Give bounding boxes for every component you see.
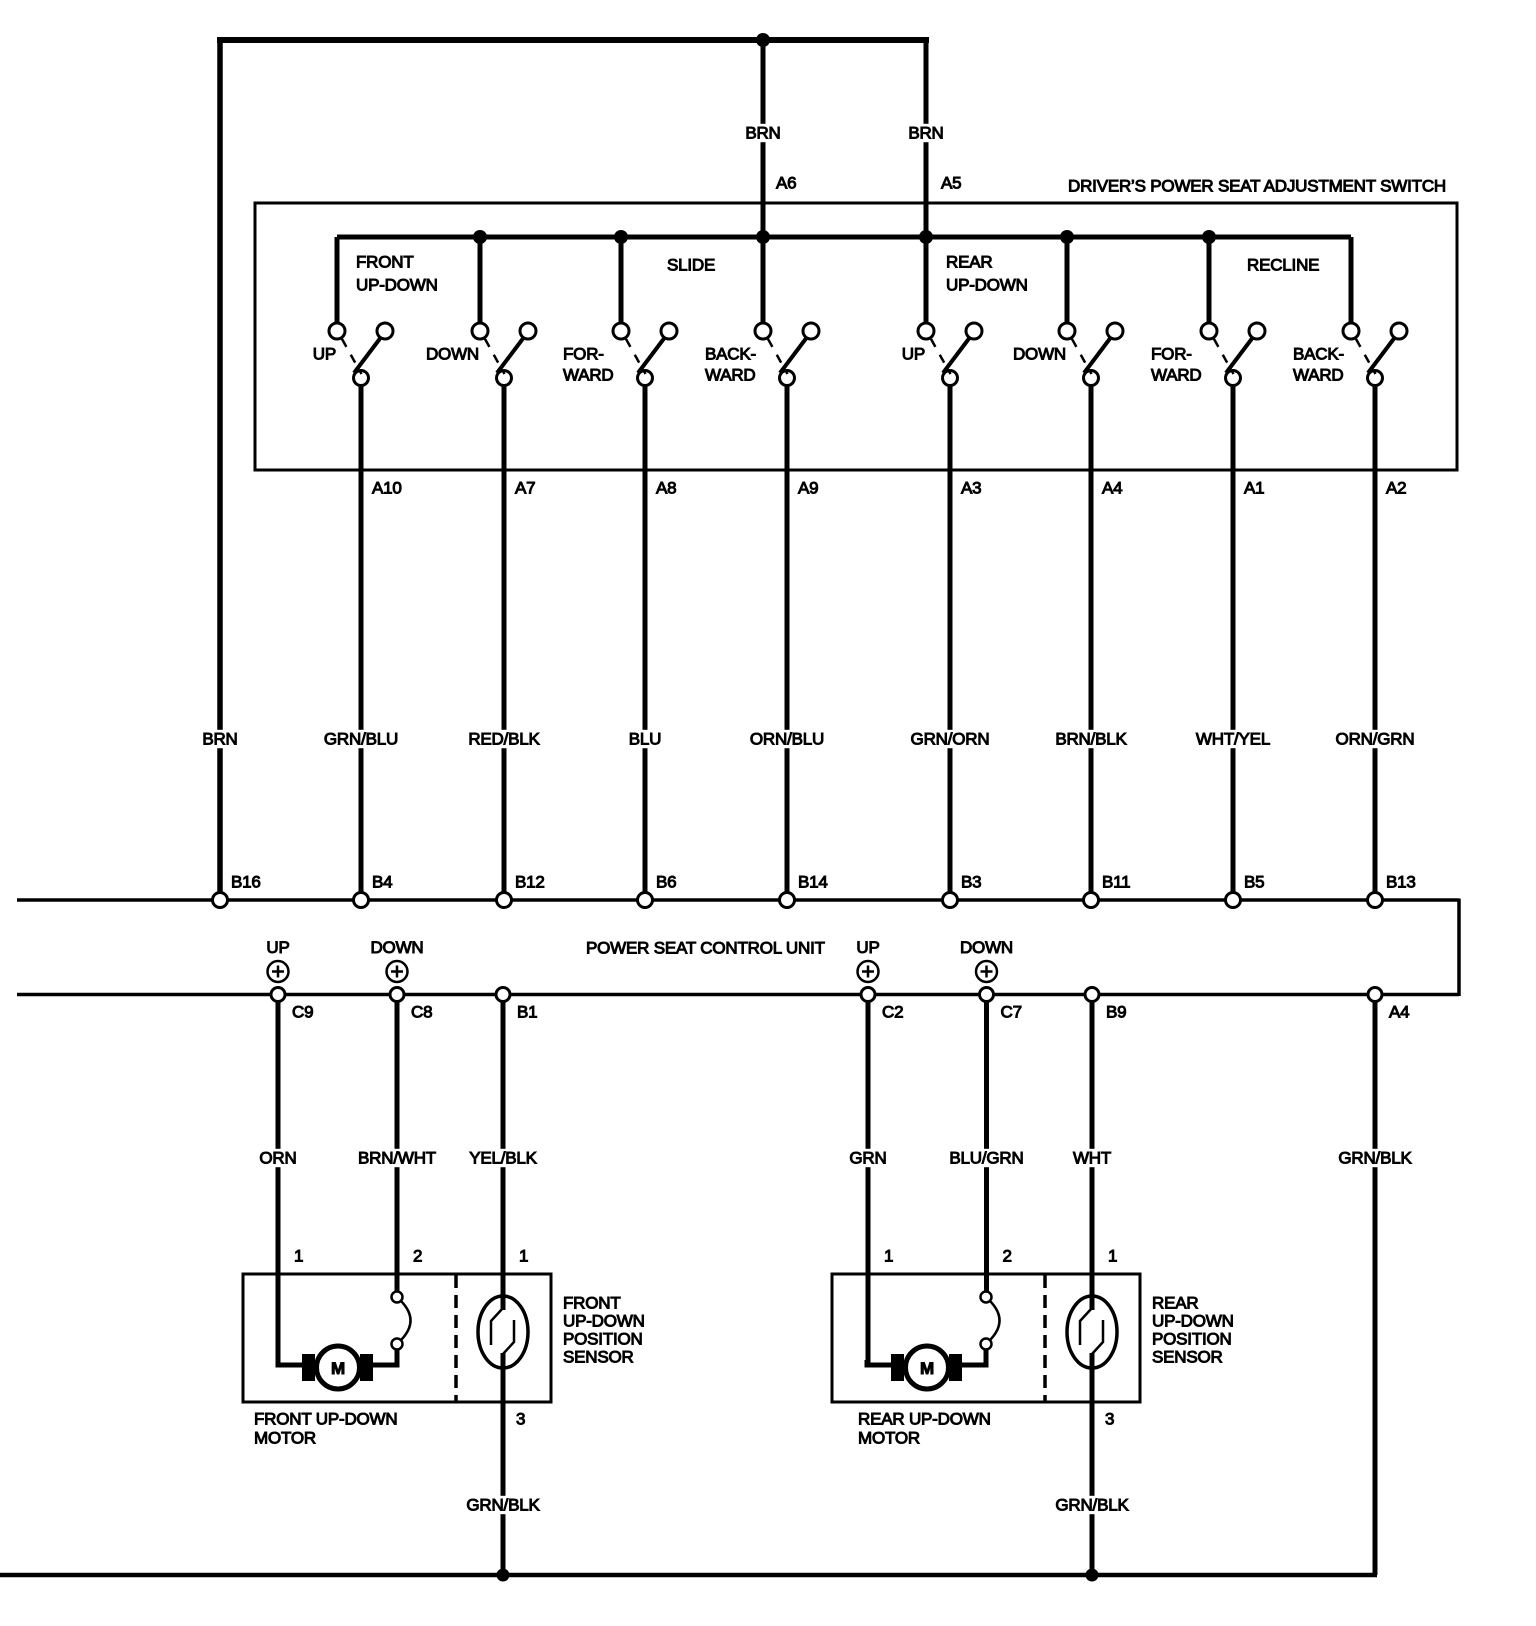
svg-text:A5: A5: [941, 174, 961, 193]
label: FRONT UP-DOWN POSITION SENSOR: [563, 1294, 645, 1367]
svg-text:DRIVER’S POWER SEAT ADJUSTMENT: DRIVER’S POWER SEAT ADJUSTMENT SWITCH: [1068, 177, 1446, 196]
label: switch position DOWN: [426, 345, 479, 364]
svg-text:B3: B3: [961, 873, 981, 892]
label: wire colour BRN (left): [200, 730, 241, 749]
svg-text:UP-DOWN: UP-DOWN: [356, 276, 438, 295]
junction: rear sensor to ground rail: [1086, 1569, 1099, 1582]
svg-text:BRN: BRN: [908, 124, 943, 143]
label: wire colour BLU/GRN: [947, 1149, 1026, 1168]
svg-text:M: M: [331, 1359, 345, 1378]
svg-text:C7: C7: [1001, 1003, 1022, 1022]
svg-text:RED/BLK: RED/BLK: [468, 730, 540, 749]
svg-text:B12: B12: [515, 873, 545, 892]
motor brush left (REAR): [891, 1354, 904, 1381]
component: POWER SEAT CONTROL UNIT outline (bottom edge): [17, 993, 1459, 997]
svg-text:M: M: [920, 1359, 934, 1378]
wire: BRN branch to pin A6: [761, 40, 766, 237]
terminal B11: [1084, 893, 1099, 908]
switch S1 FRONT UP: [329, 237, 393, 386]
wire: BRN branch to pin A5: [924, 37, 929, 237]
wire: BRN down left side to B16: [217, 37, 223, 893]
label: switch position FOR-/WARD: [563, 345, 614, 385]
terminal C2: [861, 988, 875, 1002]
svg-text:WARD: WARD: [1293, 366, 1344, 385]
label: REAR UP-DOWN POSITION SENSOR: [1152, 1294, 1234, 1367]
pin B5: [1244, 873, 1264, 892]
svg-text:REAR UP-DOWN: REAR UP-DOWN: [858, 1410, 991, 1429]
svg-text:ORN: ORN: [259, 1149, 296, 1168]
svg-text:WHT/YEL: WHT/YEL: [1196, 730, 1270, 749]
junction: bus at x=480: [473, 230, 487, 244]
svg-text:GRN/ORN: GRN/ORN: [911, 730, 990, 749]
svg-text:C8: C8: [411, 1003, 432, 1022]
svg-text:BRN/BLK: BRN/BLK: [1055, 730, 1127, 749]
pin B16: [231, 873, 261, 892]
terminal B16: [213, 893, 228, 908]
label: switch position BACK-/WARD: [1293, 345, 1344, 385]
svg-text:BACK-: BACK-: [705, 345, 756, 364]
label: wire colour ORN/BLU: [747, 730, 826, 749]
svg-text:SENSOR: SENSOR: [563, 1348, 634, 1367]
pin B3: [961, 873, 981, 892]
svg-text:2: 2: [413, 1247, 422, 1266]
wire: sensor wiper through box (FRONT): [501, 1353, 506, 1575]
svg-text:UP-DOWN: UP-DOWN: [1152, 1312, 1234, 1331]
wire: BLU from switch S3 pin A8 to B6: [643, 385, 648, 893]
pin B12: [515, 873, 545, 892]
label: section REAR UP-DOWN: [946, 253, 1028, 295]
label: switch position FOR-/WARD: [1151, 345, 1202, 385]
svg-text:GRN/BLK: GRN/BLK: [1055, 1496, 1129, 1515]
switch S7 RECLINE FORWARD: [1201, 237, 1265, 386]
junction: bus at x=1209: [1202, 230, 1216, 244]
pin A10: [372, 479, 402, 498]
svg-text:A4: A4: [1389, 1003, 1409, 1022]
wire: GRN/BLK from pin A4 to ground rail: [1373, 1001, 1378, 1575]
svg-text:DOWN: DOWN: [960, 938, 1013, 957]
svg-text:WARD: WARD: [1151, 366, 1202, 385]
svg-text:YEL/BLK: YEL/BLK: [469, 1149, 537, 1168]
junction: front sensor to ground rail: [497, 1569, 510, 1582]
svg-text:ORN/BLU: ORN/BLU: [750, 730, 824, 749]
svg-text:DOWN: DOWN: [1013, 345, 1066, 364]
pin B9: [1106, 1003, 1126, 1022]
svg-text:B4: B4: [372, 873, 392, 892]
label: wire colour ORN/GRN: [1333, 730, 1417, 749]
label: REAR UP-DOWN MOTOR: [858, 1410, 991, 1448]
svg-text:2: 2: [1003, 1247, 1012, 1266]
wire: GRN/BLU from switch S1 pin A10 to B4: [359, 385, 364, 893]
svg-text:B11: B11: [1102, 873, 1130, 892]
label: wire colour BRN (A6 feed): [743, 124, 784, 143]
label: wire colour BLU: [626, 730, 664, 749]
pin B14: [798, 873, 828, 892]
pin C8: [411, 1003, 432, 1022]
junction: bus at x=1067: [1060, 230, 1074, 244]
component: REAR MOTOR box: [832, 1274, 1140, 1402]
motor brush right (REAR): [949, 1354, 962, 1381]
wire: BLU/GRN from control unit down: [984, 1001, 989, 1291]
switch S4 SLIDE BACKWARD: [755, 237, 819, 386]
svg-text:WARD: WARD: [563, 366, 614, 385]
pin 3 (sensor output REAR): [1105, 1410, 1114, 1429]
contact: internal connector lower (FRONT): [392, 1339, 403, 1350]
svg-text:UP: UP: [266, 938, 289, 957]
svg-text:BRN: BRN: [202, 730, 237, 749]
terminal B14: [780, 893, 795, 908]
label: wire colour BRN/WHT: [355, 1149, 438, 1168]
pin 3 (sensor output FRONT): [516, 1410, 525, 1429]
svg-text:FRONT: FRONT: [563, 1294, 621, 1313]
svg-text:B1: B1: [517, 1003, 537, 1022]
svg-text:MOTOR: MOTOR: [254, 1429, 316, 1448]
terminal B13: [1368, 893, 1383, 908]
svg-text:A1: A1: [1244, 479, 1264, 498]
svg-text:FOR-: FOR-: [563, 345, 604, 364]
label: POWER SEAT CONTROL UNIT: [586, 939, 825, 958]
pin A4: [1389, 1003, 1409, 1022]
wire: ORN from control unit down: [276, 1001, 281, 1365]
pin B6: [656, 873, 676, 892]
component: DRIVER'S POWER SEAT ADJUSTMENT SWITCH box: [255, 203, 1457, 470]
svg-text:FRONT UP-DOWN: FRONT UP-DOWN: [254, 1410, 397, 1429]
wire: BRN/BLK from switch S6 pin A4 to B11: [1089, 385, 1094, 893]
switch S2 FRONT DOWN: [472, 237, 536, 386]
wire: internal curved link (FRONT): [401, 1301, 411, 1340]
wire: switch supply bus: [337, 235, 1351, 240]
pin A1: [1244, 479, 1264, 498]
svg-text:BACK-: BACK-: [1293, 345, 1344, 364]
svg-text:WHT: WHT: [1073, 1149, 1111, 1168]
label: wire colour WHT: [1070, 1149, 1113, 1168]
svg-text:A9: A9: [798, 479, 818, 498]
contact: internal connector upper (FRONT): [392, 1292, 403, 1303]
motor brush right (FRONT): [360, 1354, 373, 1381]
svg-text:B13: B13: [1386, 873, 1416, 892]
svg-text:DOWN: DOWN: [370, 938, 423, 957]
svg-text:1: 1: [294, 1247, 303, 1266]
switch S5 REAR UP: [918, 237, 982, 386]
svg-text:B16: B16: [231, 873, 261, 892]
svg-text:B9: B9: [1106, 1003, 1126, 1022]
svg-text:UP-DOWN: UP-DOWN: [563, 1312, 645, 1331]
svg-text:BLU: BLU: [629, 730, 661, 749]
switch S3 SLIDE FORWARD: [613, 237, 677, 386]
motor M1 (REAR UP-DOWN MOTOR): [906, 1346, 949, 1389]
pin A8: [656, 479, 676, 498]
pin 1 (motor connector): [294, 1247, 303, 1266]
label: wire colour GRN: [847, 1149, 889, 1168]
pin B13: [1386, 873, 1416, 892]
svg-text:FRONT: FRONT: [356, 253, 414, 272]
svg-text:GRN/BLK: GRN/BLK: [466, 1496, 540, 1515]
label: wire colour WHT/YEL: [1193, 730, 1272, 749]
svg-text:C2: C2: [882, 1003, 903, 1022]
pin A9: [798, 479, 818, 498]
label: switch position DOWN: [1013, 345, 1066, 364]
svg-text:A8: A8: [656, 479, 676, 498]
svg-text:BRN: BRN: [745, 124, 780, 143]
label: wire colour GRN/BLK (rear sensor): [1053, 1496, 1131, 1515]
svg-text:B6: B6: [656, 873, 676, 892]
wire: BRN/WHT from control unit down: [395, 1001, 400, 1291]
terminal B5: [1226, 893, 1241, 908]
wire: motor - lead inside box: [962, 1350, 986, 1368]
terminal B6: [638, 893, 653, 908]
junction: bus at x=926: [919, 230, 933, 244]
svg-text:FOR-: FOR-: [1151, 345, 1192, 364]
pin B11: [1102, 873, 1130, 892]
junction: bus at x=763: [756, 230, 770, 244]
terminal B1: [496, 988, 510, 1002]
label: section FRONT UP-DOWN: [356, 253, 438, 295]
label: switch position UP: [902, 345, 925, 364]
svg-text:POWER SEAT CONTROL UNIT: POWER SEAT CONTROL UNIT: [586, 939, 825, 958]
switch S6 REAR DOWN: [1059, 237, 1123, 386]
label: section SLIDE: [667, 256, 715, 275]
boundary: dashed separator motor/sensor (REAR): [1043, 1275, 1047, 1401]
pin 1 (motor connector): [884, 1247, 893, 1266]
svg-text:A7: A7: [515, 479, 535, 498]
svg-text:REAR: REAR: [946, 253, 992, 272]
terminal B3: [943, 893, 958, 908]
motor M1 (FRONT UP-DOWN MOTOR): [317, 1346, 360, 1389]
boundary: dashed separator motor/sensor (FRONT): [454, 1275, 458, 1401]
svg-text:DOWN: DOWN: [426, 345, 479, 364]
pin A7: [515, 479, 535, 498]
wire: BRN feed top horizontal: [217, 37, 929, 43]
wire: WHT from control unit down: [1090, 1001, 1095, 1310]
svg-text:UP-DOWN: UP-DOWN: [946, 276, 1028, 295]
terminal C9: [271, 988, 285, 1002]
svg-text:WARD: WARD: [705, 366, 756, 385]
svg-text:BLU/GRN: BLU/GRN: [949, 1149, 1023, 1168]
svg-text:1: 1: [519, 1247, 528, 1266]
wire: sensor wiper through box (REAR): [1090, 1353, 1095, 1575]
wire: YEL/BLK from control unit down: [501, 1001, 506, 1310]
label: wire colour ORN: [257, 1149, 299, 1168]
pin A4: [1102, 479, 1122, 498]
svg-text:UP: UP: [313, 345, 336, 364]
svg-text:UP: UP: [856, 938, 879, 957]
svg-text:B5: B5: [1244, 873, 1264, 892]
wire: motor + lead inside box: [865, 1360, 893, 1365]
pin A6: [776, 174, 796, 193]
component: FRONT MOTOR box: [243, 1274, 551, 1402]
svg-text:RECLINE: RECLINE: [1247, 256, 1319, 275]
label: output UP with circled plus: [856, 938, 879, 982]
label: output UP with circled plus: [266, 938, 289, 982]
terminal B4: [354, 893, 369, 908]
contact: internal connector lower (REAR): [981, 1339, 992, 1350]
component: POWER SEAT CONTROL UNIT outline (top edge): [17, 898, 1459, 902]
svg-text:POSITION: POSITION: [1152, 1330, 1232, 1349]
pin 1 (motor connector): [1108, 1247, 1117, 1266]
pin A3: [961, 479, 981, 498]
label: wire colour GRN/BLK (front sensor): [464, 1496, 542, 1515]
pin C2: [882, 1003, 903, 1022]
label: wire colour BRN (A5 feed): [906, 124, 947, 143]
label: DRIVER'S POWER SEAT ADJUSTMENT SWITCH: [1068, 177, 1446, 196]
svg-text:C9: C9: [292, 1003, 313, 1022]
svg-text:BRN/WHT: BRN/WHT: [358, 1149, 436, 1168]
svg-text:1: 1: [884, 1247, 893, 1266]
label: FRONT UP-DOWN MOTOR: [254, 1410, 397, 1448]
switch S8 RECLINE BACKWARD: [1343, 237, 1407, 386]
pin B4: [372, 873, 392, 892]
svg-text:A3: A3: [961, 479, 981, 498]
label: wire colour GRN/BLK (A4): [1336, 1149, 1414, 1168]
motor brush left (FRONT): [302, 1354, 315, 1381]
component: POWER SEAT CONTROL UNIT outline (right edge): [1457, 899, 1461, 997]
pin A2: [1386, 479, 1406, 498]
pin 2 (motor connector): [1003, 1247, 1012, 1266]
label: switch position UP: [313, 345, 336, 364]
svg-text:B14: B14: [798, 873, 828, 892]
wire: ORN/GRN from switch S8 pin A2 to B13: [1373, 385, 1378, 893]
svg-text:A10: A10: [372, 479, 402, 498]
svg-text:1: 1: [1108, 1247, 1117, 1266]
label: wire colour GRN/BLU: [321, 730, 400, 749]
terminal A4: [1368, 988, 1382, 1002]
terminal B9: [1085, 988, 1099, 1002]
wire: GRN from control unit down: [866, 1001, 871, 1365]
pin 2 (motor connector): [413, 1247, 422, 1266]
pin C7: [1001, 1003, 1022, 1022]
wire: internal curved link (REAR): [990, 1301, 1000, 1340]
svg-text:ORN/GRN: ORN/GRN: [1336, 730, 1415, 749]
wire: RED/BLK from switch S2 pin A7 to B12: [502, 385, 507, 893]
wire: motor - lead inside box: [373, 1350, 397, 1368]
sensor: FRONT UP-DOWN POSITION SENSOR element: [478, 1296, 528, 1368]
wire: ground rail bottom: [0, 1573, 1377, 1575]
svg-text:MOTOR: MOTOR: [858, 1429, 920, 1448]
wire: GRN/ORN from switch S5 pin A3 to B3: [948, 385, 953, 893]
pin B1: [517, 1003, 537, 1022]
contact: internal connector upper (REAR): [981, 1292, 992, 1303]
wire: WHT/YEL from switch S7 pin A1 to B5: [1231, 385, 1236, 893]
label: wire colour YEL/BLK: [467, 1149, 540, 1168]
svg-text:3: 3: [1105, 1410, 1114, 1429]
terminal C8: [390, 988, 404, 1002]
pin 1 (motor connector): [519, 1247, 528, 1266]
label: wire colour RED/BLK: [466, 730, 543, 749]
svg-text:SENSOR: SENSOR: [1152, 1348, 1223, 1367]
label: section RECLINE: [1247, 256, 1319, 275]
svg-text:A2: A2: [1386, 479, 1406, 498]
svg-text:UP: UP: [902, 345, 925, 364]
svg-text:REAR: REAR: [1152, 1294, 1198, 1313]
wire: motor + lead inside box: [276, 1360, 304, 1365]
sensor: REAR UP-DOWN POSITION SENSOR element: [1067, 1296, 1117, 1368]
label: output DOWN with circled plus: [370, 938, 423, 982]
svg-text:GRN/BLK: GRN/BLK: [1338, 1149, 1412, 1168]
svg-text:A6: A6: [776, 174, 796, 193]
svg-text:3: 3: [516, 1410, 525, 1429]
label: output DOWN with circled plus: [960, 938, 1013, 982]
wire: ORN/BLU from switch S4 pin A9 to B14: [785, 385, 790, 893]
svg-text:POSITION: POSITION: [563, 1330, 643, 1349]
svg-text:SLIDE: SLIDE: [667, 256, 715, 275]
terminal C7: [980, 988, 994, 1002]
svg-text:A4: A4: [1102, 479, 1122, 498]
label: wire colour GRN/ORN: [908, 730, 992, 749]
junction: top feed / A6 branch: [756, 33, 770, 47]
terminal B12: [497, 893, 512, 908]
svg-text:GRN/BLU: GRN/BLU: [324, 730, 398, 749]
svg-text:GRN: GRN: [849, 1149, 886, 1168]
pin A5: [941, 174, 961, 193]
label: switch position BACK-/WARD: [705, 345, 756, 385]
label: wire colour BRN/BLK: [1053, 730, 1130, 749]
pin C9: [292, 1003, 313, 1022]
junction: bus at x=621: [614, 230, 628, 244]
